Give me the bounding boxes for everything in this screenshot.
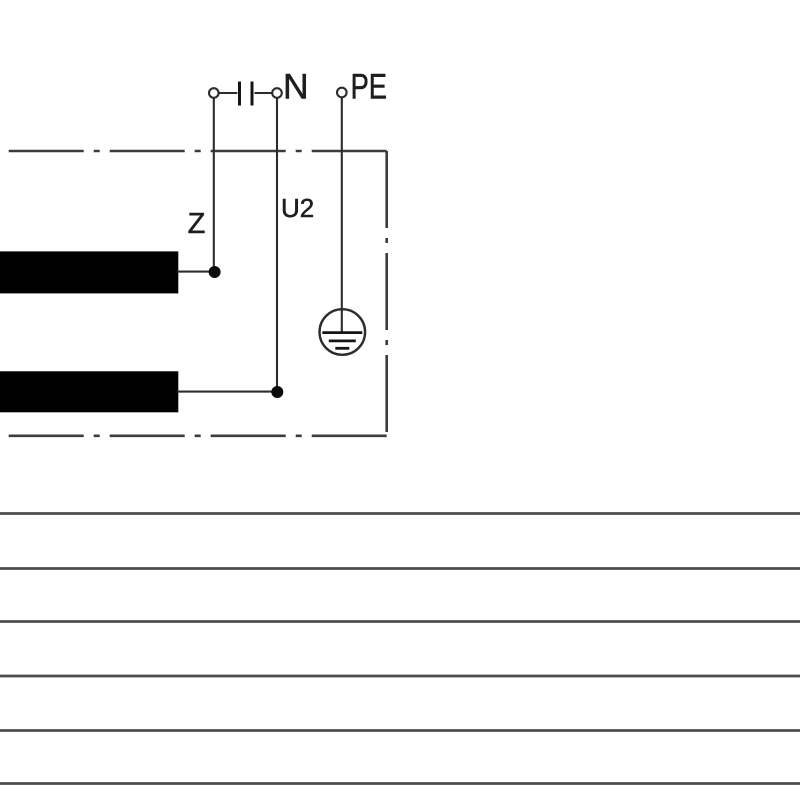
title block line 3 [0,620,800,623]
wire PE vertical [341,97,343,333]
winding terminal bar W1 [0,251,178,293]
wire from capacitor to terminal N [255,92,273,94]
svg-text:Z: Z [188,208,206,240]
earth bar short [335,347,349,350]
title block line 6 [0,782,800,785]
wire from bar W1 to node Z [177,271,214,273]
title block line 5 [0,729,800,732]
title block line 4 [0,675,800,678]
enclosure boundary top (dash-dot) [0,150,387,153]
wire from terminal T1 to capacitor [219,92,237,94]
terminal circle N [272,88,282,98]
winding terminal bar W2 [0,371,178,412]
wire from bar W2 to node U2 [177,391,277,393]
terminal circle T1 (capacitor left terminal) [209,88,219,98]
earth bar long [322,331,362,334]
wire U2 vertical [276,98,278,392]
protective earth symbol circle [320,309,366,355]
enclosure boundary bottom (dash-dot) [0,434,387,437]
enclosure boundary right (dash-dot) [385,151,388,436]
title block line 1 [0,512,800,515]
title block line 2 [0,567,800,570]
svg-text:PE: PE [351,67,387,106]
label PE [351,67,387,106]
junction node Z [209,266,221,278]
capacitor C1 right plate [251,82,254,106]
wire Z vertical [213,98,215,272]
capacitor C1 left plate [238,82,241,106]
svg-text:N: N [283,66,309,106]
terminal circle PE [337,88,347,98]
svg-text:U2: U2 [281,193,314,223]
junction node U2 [271,386,283,398]
earth bar middle [329,339,356,342]
